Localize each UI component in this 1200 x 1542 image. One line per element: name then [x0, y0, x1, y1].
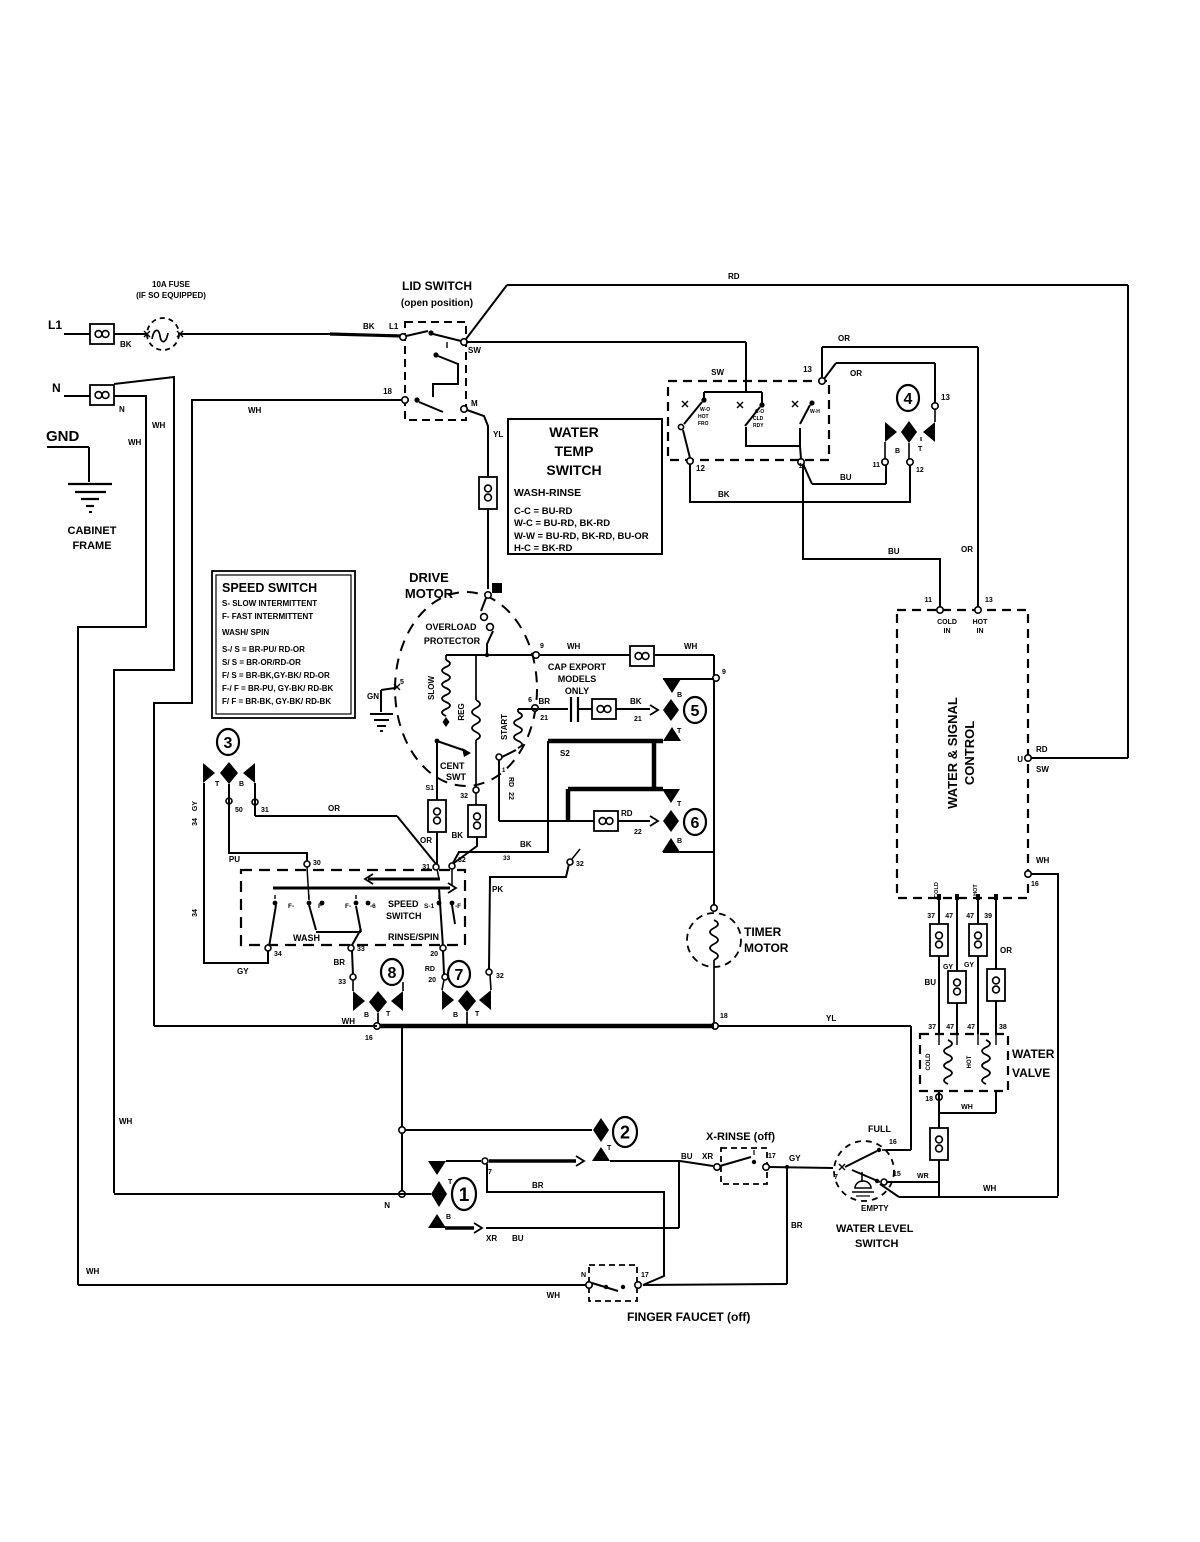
svg-text:33: 33: [357, 946, 365, 953]
svg-text:(open position): (open position): [401, 298, 473, 309]
wire WH motor 9 to node 9: [446, 654, 630, 656]
lid switch terminal L1: [400, 334, 406, 340]
svg-text:16: 16: [889, 1139, 897, 1146]
water level pivot: [861, 1172, 863, 1182]
svg-text:ONLY: ONLY: [565, 686, 589, 696]
water temp switch contact box: [668, 381, 829, 460]
connector below valve: [930, 1128, 948, 1160]
connector 5 diamond: [663, 699, 679, 721]
svg-text:15: 15: [893, 1171, 901, 1178]
water temp contact 1: [701, 397, 706, 402]
lid switch contact lower: [414, 397, 419, 402]
svg-text:HOT: HOT: [973, 619, 989, 626]
svg-text:32: 32: [458, 857, 466, 864]
svg-text:F-: F-: [288, 903, 294, 910]
svg-text:MOTOR: MOTOR: [405, 586, 454, 601]
valve cold solenoid: [944, 1040, 952, 1084]
svg-text:M: M: [471, 399, 478, 408]
svg-text:SWITCH: SWITCH: [546, 462, 601, 478]
terminal WH 16: [1025, 871, 1031, 877]
svg-text:WASH/ SPIN: WASH/ SPIN: [222, 628, 269, 637]
water temp switch legend box: [508, 419, 662, 554]
svg-text:5: 5: [400, 679, 404, 686]
svg-text:W-W = BU-RD, BK-RD, BU-OR: W-W = BU-RD, BK-RD, BU-OR: [514, 531, 649, 542]
svg-text:T: T: [386, 1011, 391, 1018]
svg-text:BU: BU: [681, 1152, 693, 1161]
motor terminal M: [492, 583, 502, 593]
svg-text:BK: BK: [451, 831, 463, 840]
svg-text:GY: GY: [192, 801, 199, 811]
svg-text:COLD: COLD: [926, 1053, 932, 1071]
water temp inner wire 2-3: [746, 427, 800, 446]
connector 4 triangle left: [885, 422, 897, 442]
svg-text:WH: WH: [1036, 856, 1050, 865]
connector 4 circle: [897, 385, 919, 411]
svg-text:WH: WH: [567, 642, 581, 651]
connector 5 circle: [684, 697, 706, 723]
speed switch inner links: [309, 905, 316, 930]
svg-text:SW: SW: [1036, 765, 1049, 774]
wire PU from connector 3: [226, 798, 232, 804]
wire BU 11 to water signal control: [803, 465, 940, 610]
svg-text:18: 18: [925, 1096, 933, 1103]
connector on column 39: [987, 969, 1005, 1001]
svg-text:17: 17: [641, 1272, 649, 1279]
svg-text:WATER: WATER: [549, 424, 599, 440]
svg-text:6: 6: [691, 815, 700, 832]
finger faucet contact: [592, 1283, 618, 1291]
motor centrifugal switch: [435, 739, 440, 744]
connector 6 bracket bottom: [663, 851, 714, 853]
svg-text:RD: RD: [425, 966, 435, 973]
wire WH from N down left side: [78, 396, 146, 1285]
water valve box: [920, 1034, 1008, 1091]
node b: [399, 1191, 405, 1197]
wire to connector 2: [405, 1129, 592, 1131]
svg-text:34: 34: [192, 909, 199, 917]
wire RD lid switch to right edge: [466, 285, 507, 339]
valve column wire 37: [938, 898, 940, 1034]
wire BR 33 down: [352, 951, 353, 975]
svg-text:-F: -F: [455, 903, 461, 910]
svg-text:SWT: SWT: [446, 772, 466, 782]
svg-text:YL: YL: [493, 430, 503, 439]
svg-text:1: 1: [459, 1185, 470, 1206]
speed switch terminal 31: [433, 864, 439, 870]
svg-text:EMPTY: EMPTY: [861, 1204, 889, 1213]
connector 3 triangle left: [203, 763, 215, 783]
connector 2 triangle: [592, 1147, 610, 1161]
connector 8 triangle right: [391, 991, 403, 1011]
wire OR 13 to water signal control: [821, 347, 823, 378]
wire RD U to right edge: [1031, 757, 1128, 759]
svg-text:W-O: W-O: [700, 407, 710, 413]
svg-text:HOT: HOT: [698, 414, 709, 420]
thick link S2 to lower bus: [652, 741, 657, 789]
svg-text:-6: -6: [370, 903, 376, 910]
svg-text:20: 20: [428, 977, 436, 984]
svg-text:11: 11: [925, 597, 933, 604]
valve hot solenoid: [982, 1040, 990, 1084]
svg-text:7: 7: [834, 1174, 838, 1181]
svg-text:L1: L1: [48, 318, 62, 332]
svg-text:7: 7: [455, 967, 464, 984]
wire OR from connector 3 to speed switch 31: [252, 799, 258, 805]
svg-text:WH: WH: [342, 1017, 356, 1026]
connector 2 circle: [613, 1117, 637, 1147]
svg-text:BU: BU: [840, 473, 852, 482]
svg-text:12: 12: [916, 467, 924, 474]
lid switch terminal SW: [461, 339, 467, 345]
svg-text:39: 39: [984, 913, 992, 920]
svg-text:RD: RD: [1036, 745, 1048, 754]
water level switch boundary: [834, 1141, 894, 1201]
terminal 33b: [350, 974, 356, 980]
connector on S1 lead: [428, 800, 446, 832]
svg-text:X-RINSE (off): X-RINSE (off): [706, 1131, 775, 1143]
wire XR BU connector 1 to x-rinse: [445, 1226, 474, 1229]
connector 5 triangle bottom: [663, 727, 681, 741]
connector 6 circle: [684, 809, 706, 835]
svg-text:BR: BR: [791, 1221, 803, 1230]
terminal 20b: [442, 974, 448, 980]
connector 8 triangle left: [353, 991, 365, 1011]
svg-text:S2: S2: [560, 749, 570, 758]
svg-text:OR: OR: [328, 804, 340, 813]
svg-text:W-C = BU-RD, BK-RD: W-C = BU-RD, BK-RD: [514, 518, 610, 529]
svg-text:CABINET: CABINET: [68, 525, 117, 537]
svg-text:WR: WR: [917, 1173, 929, 1180]
connector 7 triangle right: [479, 990, 491, 1010]
wire WR empty to right: [887, 1181, 938, 1183]
wire full to YL: [886, 1149, 911, 1151]
svg-text:9: 9: [722, 669, 726, 676]
water signal control bottom terminals: [937, 894, 941, 900]
svg-text:F: F: [318, 903, 322, 910]
connector 8 diamond: [369, 991, 387, 1013]
svg-text:RD: RD: [728, 272, 740, 281]
svg-text:U: U: [1017, 755, 1023, 764]
motor start contact: [502, 750, 516, 757]
speed switch contacts: [273, 901, 278, 906]
svg-text:OR: OR: [420, 836, 432, 845]
svg-text:COLD: COLD: [934, 882, 940, 898]
connector 7 circle: [448, 961, 470, 987]
x-rinse switch: [721, 1148, 767, 1184]
svg-text:IN: IN: [977, 628, 984, 635]
svg-text:33: 33: [338, 979, 346, 986]
lid switch (open position): [405, 322, 466, 420]
svg-text:BK: BK: [363, 322, 375, 331]
svg-text:OR: OR: [838, 334, 850, 343]
svg-text:RD: RD: [507, 777, 514, 787]
wire 7 arrow to connector 2: [446, 1160, 481, 1162]
speed switch box: [241, 870, 465, 945]
wire YL to water level switch: [718, 1025, 911, 1027]
svg-text:OVERLOAD: OVERLOAD: [425, 622, 477, 632]
wire BR start to capacitor: [518, 708, 568, 710]
svg-text:WH: WH: [86, 1267, 100, 1276]
connector 3 circle: [217, 729, 239, 755]
svg-text:WH: WH: [152, 421, 166, 430]
connector 7 diamond: [458, 990, 476, 1012]
connector 3 diamond: [220, 762, 238, 784]
svg-text:SW: SW: [711, 368, 724, 377]
svg-text:GY: GY: [964, 962, 974, 969]
svg-text:RDY: RDY: [753, 423, 764, 429]
wire BU to x-rinse: [610, 1160, 680, 1162]
lid switch terminal M: [461, 406, 467, 412]
terminal 32d: [567, 859, 573, 865]
svg-text:CENT: CENT: [440, 761, 465, 771]
svg-text:VALVE: VALVE: [1012, 1066, 1050, 1080]
svg-text:T: T: [607, 1145, 612, 1152]
svg-text:B: B: [239, 781, 244, 788]
svg-text:BK: BK: [630, 697, 642, 706]
svg-text:MODELS: MODELS: [558, 674, 597, 684]
connector 1 triangle top: [428, 1161, 446, 1175]
svg-text:FINGER FAUCET (off): FINGER FAUCET (off): [627, 1310, 750, 1324]
svg-text:11: 11: [873, 462, 881, 469]
svg-text:SWITCH: SWITCH: [855, 1238, 898, 1250]
svg-text:BK: BK: [120, 340, 132, 349]
connector on column 47b: [969, 924, 987, 956]
connector 8 circle: [381, 959, 403, 985]
svg-text:F/ F = BR-BK, GY-BK/ RD-BK: F/ F = BR-BK, GY-BK/ RD-BK: [222, 697, 331, 706]
svg-text:20: 20: [430, 951, 438, 958]
motor terminal 5 and GN ground: [394, 684, 400, 690]
water temp terminal 13: [819, 378, 825, 384]
finger faucet terminal N: [586, 1282, 592, 1288]
svg-text:T: T: [215, 781, 220, 788]
svg-text:HOT: HOT: [973, 884, 979, 896]
water and signal control box: [897, 610, 1028, 898]
svg-text:BK: BK: [520, 840, 532, 849]
connector 1 triangle bottom: [428, 1214, 446, 1228]
svg-text:32: 32: [496, 973, 504, 980]
water temp terminal 12: [683, 430, 690, 458]
connector 1 diamond: [431, 1181, 447, 1207]
connector on 32 lead: [468, 805, 486, 837]
speed switch wash blade: [269, 905, 276, 947]
svg-text:B: B: [446, 1214, 451, 1221]
wire GY x-rinse to water level: [769, 1167, 833, 1168]
svg-text:XR: XR: [702, 1152, 713, 1161]
svg-text:18: 18: [383, 387, 392, 396]
svg-text:WH: WH: [248, 406, 262, 415]
svg-text:C-O: C-O: [755, 409, 764, 415]
svg-text:2: 2: [620, 1122, 630, 1142]
speed switch slider lower: [273, 887, 450, 890]
valve column wire 47a: [956, 898, 958, 1034]
svg-text:SPEED SWITCH: SPEED SWITCH: [222, 581, 317, 595]
svg-text:S- SLOW INTERMITTENT: S- SLOW INTERMITTENT: [222, 599, 317, 608]
wire WH valve bottom: [938, 1091, 940, 1128]
wire OR 13 to connector 4: [824, 363, 836, 379]
lid switch inner wire: [433, 363, 458, 397]
svg-text:PROTECTOR: PROTECTOR: [424, 636, 481, 646]
svg-text:50: 50: [235, 807, 243, 814]
wire BU 11 to 11b: [803, 464, 812, 484]
svg-text:30: 30: [313, 860, 321, 867]
svg-text:16: 16: [365, 1035, 373, 1042]
svg-text:HOT: HOT: [967, 1055, 973, 1068]
finger faucet box: [589, 1265, 637, 1301]
connector 5 triangle top: [663, 679, 681, 693]
cold in terminal 11: [937, 607, 943, 613]
svg-text:TEMP: TEMP: [555, 443, 594, 459]
connector 7 triangle left: [442, 990, 454, 1010]
water temp terminal 11: [800, 446, 801, 459]
svg-text:F-/ F = BR-PU, GY-BK/ RD-BK: F-/ F = BR-PU, GY-BK/ RD-BK: [222, 684, 334, 693]
svg-text:38: 38: [999, 1024, 1007, 1031]
svg-text:37: 37: [928, 1024, 936, 1031]
svg-text:CAP EXPORT: CAP EXPORT: [548, 662, 607, 672]
valve terminal 18: [936, 1094, 942, 1100]
svg-text:9: 9: [540, 643, 544, 650]
connector on YL wire: [479, 477, 497, 509]
connector 4 triangle right: [923, 422, 935, 442]
svg-text:16: 16: [1031, 881, 1039, 888]
svg-text:18: 18: [720, 1013, 728, 1020]
svg-text:N: N: [119, 405, 125, 414]
svg-text:REG: REG: [457, 703, 466, 720]
svg-text:N: N: [52, 381, 61, 395]
connector 6 triangle top: [662, 789, 680, 803]
svg-text:CONTROL: CONTROL: [962, 721, 977, 785]
svg-text:F-: F-: [345, 903, 351, 910]
connector 1 circle: [452, 1178, 476, 1210]
svg-text:GY: GY: [943, 964, 953, 971]
svg-text:S/ S = BR-OR/RD-OR: S/ S = BR-OR/RD-OR: [222, 658, 301, 667]
svg-text:13: 13: [985, 597, 993, 604]
speed switch terminal 32: [449, 863, 455, 869]
svg-text:BR: BR: [333, 958, 345, 967]
wire YL lid M to drive motor: [467, 410, 488, 477]
svg-text:WH: WH: [128, 438, 142, 447]
finger faucet terminal 17: [635, 1282, 641, 1288]
wire BK 12 to 12b: [690, 464, 910, 502]
svg-text:C-C = BU-RD: C-C = BU-RD: [514, 506, 572, 517]
svg-text:47: 47: [967, 1024, 975, 1031]
water level empty contact: [852, 1170, 880, 1182]
svg-text:21: 21: [540, 715, 548, 722]
x-rinse terminal left: [714, 1164, 720, 1170]
svg-text:SLOW: SLOW: [427, 676, 436, 700]
svg-text:10A FUSE: 10A FUSE: [152, 280, 191, 289]
svg-text:DRIVE: DRIVE: [409, 570, 449, 585]
svg-text:N: N: [581, 1272, 586, 1279]
svg-text:B: B: [677, 838, 682, 845]
svg-text:B: B: [453, 1012, 458, 1019]
connector 6 diamond: [663, 810, 679, 832]
svg-text:S1: S1: [425, 785, 434, 792]
svg-text:37: 37: [927, 913, 935, 920]
speed switch terminal 30: [304, 861, 310, 867]
svg-text:8: 8: [388, 965, 397, 982]
motor start winding: [517, 709, 519, 712]
speed switch terminal 20: [440, 945, 446, 951]
svg-text:W-H: W-H: [810, 409, 820, 415]
svg-text:T: T: [475, 1011, 480, 1018]
speed switch legend box: [212, 571, 355, 718]
wire BK L1-to-fuse: [114, 333, 146, 335]
svg-text:B: B: [895, 448, 900, 455]
water temp switch inner bus: [745, 381, 747, 392]
svg-text:21: 21: [634, 716, 642, 723]
connector on column 47a: [948, 971, 966, 1003]
svg-text:31: 31: [261, 807, 269, 814]
svg-text:3: 3: [224, 735, 233, 752]
svg-text:13: 13: [941, 393, 950, 402]
svg-text:S-/ S = BR-PU/ RD-OR: S-/ S = BR-PU/ RD-OR: [222, 645, 305, 654]
svg-text:LID SWITCH: LID SWITCH: [402, 279, 472, 293]
svg-text:COLD: COLD: [937, 619, 957, 626]
svg-text:MOTOR: MOTOR: [744, 941, 789, 955]
svg-text:F- FAST INTERMITTENT: F- FAST INTERMITTENT: [222, 612, 313, 621]
main bus wire 16: [154, 1025, 377, 1027]
wire S2 thick bus: [548, 739, 663, 744]
svg-text:RD: RD: [621, 809, 633, 818]
svg-text:WH: WH: [684, 642, 698, 651]
svg-text:7: 7: [488, 1169, 492, 1176]
svg-text:4: 4: [904, 391, 913, 408]
svg-text:TIMER: TIMER: [744, 925, 782, 939]
svg-text:FRAME: FRAME: [72, 540, 111, 552]
svg-text:H-C = BK-RD: H-C = BK-RD: [514, 543, 572, 554]
terminal U: [1025, 755, 1031, 761]
connector 2 diamond: [593, 1118, 609, 1142]
svg-text:GY: GY: [789, 1154, 801, 1163]
svg-text:T: T: [918, 446, 923, 453]
svg-text:SW: SW: [468, 346, 481, 355]
svg-text:32: 32: [460, 793, 468, 800]
svg-text:B: B: [677, 692, 682, 699]
svg-text:RINSE/SPIN: RINSE/SPIN: [388, 932, 439, 942]
water temp contact 3: [809, 400, 814, 405]
connector on column 37: [930, 924, 948, 956]
svg-text:WH: WH: [119, 1117, 133, 1126]
bottom wire WH: [78, 1284, 586, 1286]
water level full contact: [845, 1151, 877, 1167]
svg-text:SWITCH: SWITCH: [386, 911, 422, 921]
svg-text:5: 5: [691, 703, 700, 720]
svg-text:IN: IN: [944, 628, 951, 635]
svg-text:13: 13: [803, 365, 812, 374]
svg-text:17: 17: [768, 1153, 776, 1160]
svg-text:33: 33: [503, 855, 511, 862]
connector 4 terminal 13: [932, 403, 938, 409]
x-rinse contact: [720, 1157, 751, 1166]
svg-text:WATER LEVEL: WATER LEVEL: [836, 1223, 914, 1235]
connector on capacitor wire: [578, 708, 592, 710]
motor terminal 9: [533, 652, 539, 658]
svg-text:34: 34: [192, 818, 199, 826]
drive motor boundary: [395, 592, 537, 786]
wire RD 20 down: [443, 951, 444, 974]
capacitor C1: [570, 697, 572, 722]
wire BK to connector 5: [616, 708, 650, 710]
node 16: [374, 1023, 380, 1029]
svg-text:47: 47: [946, 1024, 954, 1031]
svg-text:WATER & SIGNAL: WATER & SIGNAL: [945, 697, 960, 809]
svg-text:WASH: WASH: [293, 933, 320, 943]
svg-text:T: T: [677, 728, 682, 735]
svg-text:BU: BU: [888, 547, 900, 556]
svg-text:FRO: FRO: [698, 421, 709, 427]
lid switch terminal 18: [402, 397, 408, 403]
svg-text:BU: BU: [512, 1234, 524, 1243]
